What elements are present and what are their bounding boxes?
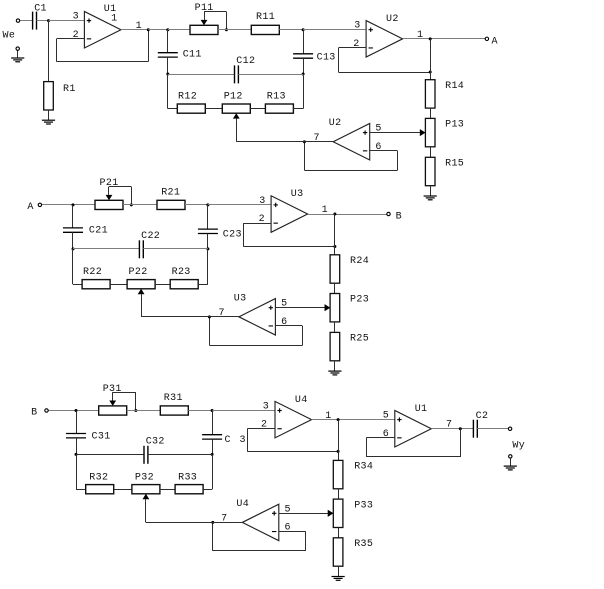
terminal B input	[45, 409, 48, 412]
svg-text:6: 6	[383, 429, 389, 440]
wire down to C31	[76, 411, 78, 434]
pin 1 label U1	[136, 21, 142, 32]
wire U4 pin6 feedback	[213, 522, 306, 550]
label R13	[267, 92, 286, 103]
wire R21 to C23 node	[185, 204, 208, 206]
svg-text:R21: R21	[161, 187, 180, 198]
wire node to U1 pin3	[49, 20, 85, 22]
svg-text:1: 1	[111, 13, 117, 24]
pin 5 label U3	[281, 299, 287, 310]
wire down to C11	[167, 30, 169, 53]
label B input	[31, 407, 37, 418]
junction C21 node	[72, 203, 75, 206]
svg-text:3: 3	[73, 12, 79, 23]
wire P23 to R25	[334, 322, 336, 333]
junction output node B	[333, 213, 336, 216]
wire down to C21	[72, 205, 74, 228]
label P11	[195, 3, 214, 14]
svg-text:1: 1	[136, 21, 142, 32]
potentiometer P33	[328, 499, 343, 527]
pin 6 label U2	[375, 142, 381, 153]
pin 3 label U2	[354, 21, 360, 32]
svg-text:R11: R11	[256, 12, 275, 23]
wire node down to R1	[48, 21, 50, 82]
svg-text:R1: R1	[63, 84, 76, 95]
svg-text:7: 7	[219, 308, 225, 319]
resistor R32	[86, 485, 114, 494]
wire R11 to C13 node	[279, 29, 303, 31]
pin 6 label U3	[281, 317, 287, 328]
wire C-row left 2	[73, 248, 139, 250]
resistor R34	[333, 460, 343, 488]
label R15	[445, 159, 464, 170]
resistor R14	[425, 80, 435, 108]
label P13	[445, 120, 464, 131]
label P12	[224, 92, 243, 103]
svg-text:2: 2	[73, 30, 79, 41]
svg-text:P21: P21	[100, 178, 119, 189]
svg-text:C13: C13	[317, 52, 336, 63]
label U2	[386, 14, 399, 25]
junction C-row right 3	[211, 453, 214, 456]
wire U3 lower output to P22 wiper	[141, 296, 239, 317]
wire C33 to row	[212, 439, 214, 454]
wire down to C33	[212, 411, 214, 435]
svg-text:R12: R12	[178, 92, 197, 103]
label U2 lower	[329, 118, 342, 129]
wire C-row left 3	[76, 454, 144, 456]
wire R12 to P12	[205, 108, 222, 110]
label A input	[27, 202, 33, 213]
junction P31 wiper	[134, 409, 137, 412]
svg-text:3: 3	[259, 196, 265, 207]
ground under R1	[42, 110, 55, 124]
pin 2 label U1	[73, 30, 79, 41]
junction output node A	[429, 37, 432, 40]
wire R22 to P22	[110, 284, 127, 286]
wire left drop to R12	[168, 74, 178, 109]
label U4	[295, 395, 308, 406]
label R21	[161, 187, 180, 198]
ground under R35	[332, 566, 345, 580]
svg-text:U3: U3	[234, 293, 247, 304]
wire C2 to Wy	[477, 428, 508, 430]
wire to U2 pin3	[303, 29, 366, 31]
terminal ground output	[509, 455, 512, 458]
resistor R1	[44, 82, 54, 110]
svg-text:7: 7	[314, 133, 320, 144]
capacitor C1	[33, 12, 37, 30]
svg-text:P13: P13	[445, 120, 464, 131]
pin 3 label U1	[73, 12, 79, 23]
wire P11 wiper loop	[204, 12, 227, 30]
svg-text:C11: C11	[183, 50, 202, 61]
label R11	[256, 12, 275, 23]
wire U2 pin5 to P13 wiper	[370, 129, 426, 136]
resistor R24	[330, 255, 340, 283]
resistor R13	[265, 104, 293, 113]
junction U1 output	[147, 28, 150, 31]
op-amp U1	[84, 11, 121, 48]
svg-text:C12: C12	[236, 56, 255, 67]
label R24	[350, 256, 369, 267]
wire U4 output to U1 pin5	[312, 419, 395, 421]
svg-text:3: 3	[263, 402, 269, 413]
wire to P11	[168, 29, 190, 31]
svg-text:6: 6	[375, 142, 381, 153]
wire C31 to row	[76, 438, 78, 455]
wire A to node	[42, 204, 95, 206]
pin 7 label U1	[446, 420, 452, 431]
op-amp U3	[271, 196, 308, 233]
wire P22 to R23	[155, 284, 170, 286]
pin 5 label U4	[285, 504, 291, 515]
junction C-row right	[302, 73, 305, 76]
label U3 lower	[234, 293, 247, 304]
svg-text:C31: C31	[92, 431, 111, 442]
svg-text:C1: C1	[34, 4, 47, 15]
svg-text:R23: R23	[172, 267, 191, 278]
label A	[492, 36, 498, 47]
junction U3 feedback	[333, 245, 336, 248]
label B	[396, 211, 402, 222]
wire C-row left	[168, 74, 235, 76]
wire U3 pin6 feedback	[209, 317, 302, 346]
svg-text:R35: R35	[354, 539, 373, 550]
junction C-row left 2	[72, 247, 75, 250]
wire to U3 pin3	[208, 204, 271, 206]
wire U4 node down to R34	[338, 420, 340, 461]
op-amp U1 second half	[395, 410, 432, 447]
capacitor C32	[144, 446, 148, 464]
svg-text:U2: U2	[386, 14, 399, 25]
svg-text:5: 5	[281, 299, 287, 310]
capacitor C12	[235, 65, 239, 83]
wire main to C11 node	[148, 29, 168, 31]
resistor R15	[425, 157, 435, 185]
wire P33 to R35	[338, 528, 340, 538]
pin 1 label U2	[417, 30, 423, 41]
label P32	[135, 473, 154, 484]
wire R23 to right drop	[198, 249, 208, 285]
svg-text:B: B	[31, 407, 37, 418]
label C21	[89, 226, 108, 237]
label U3	[291, 189, 304, 200]
wire C-row right 3	[148, 454, 212, 456]
pin 1 label U3	[322, 205, 328, 216]
terminal Wy	[508, 427, 511, 430]
label R25	[350, 334, 369, 345]
label U1	[104, 4, 117, 15]
resistor R35	[333, 538, 343, 566]
terminal A	[485, 37, 488, 40]
label P31	[103, 384, 122, 395]
wire U2 output to A	[403, 38, 486, 40]
resistor R11	[251, 25, 279, 34]
pin 2 label U4	[261, 420, 267, 431]
svg-text:A: A	[27, 202, 33, 213]
capacitor C22	[139, 240, 143, 258]
svg-text:R34: R34	[354, 462, 373, 473]
potentiometer P32	[132, 485, 160, 502]
wire P31 to R31	[127, 410, 161, 412]
label R32	[89, 473, 108, 484]
wire U4 pin5 to P33 wiper	[279, 510, 334, 517]
potentiometer P12	[222, 104, 250, 121]
junction U4 output node	[337, 418, 340, 421]
capacitor C33	[202, 435, 222, 439]
label P23	[350, 295, 369, 306]
junction U4 feedback	[337, 450, 340, 453]
junction C31 node	[75, 409, 78, 412]
svg-text:3: 3	[240, 435, 246, 446]
wire R13 to right drop	[293, 74, 303, 109]
svg-text:Wy: Wy	[512, 440, 525, 451]
wire input We	[20, 20, 33, 22]
svg-text:C2: C2	[476, 411, 489, 422]
op-amp U2 second half	[333, 123, 370, 160]
label P33	[354, 500, 373, 511]
wire R14 to P13	[430, 108, 432, 118]
junction U2 lower output	[303, 140, 306, 143]
pin 5 label U2	[375, 124, 381, 135]
wire U4 lower output to P32 wiper	[146, 501, 243, 522]
label U4 lower	[236, 499, 249, 510]
wire P21 to R21	[123, 204, 157, 206]
label R33	[178, 473, 197, 484]
label U1 output buffer	[415, 404, 428, 415]
capacitor C23	[198, 229, 218, 233]
svg-text:C22: C22	[141, 231, 160, 242]
label R22	[83, 267, 102, 278]
svg-text:1: 1	[325, 411, 331, 422]
wire R24 to P23	[334, 283, 336, 293]
ground under R25	[328, 361, 341, 375]
wire U3 output to B	[308, 214, 387, 216]
wire down to C13	[303, 30, 305, 54]
pin 2 label U3	[259, 214, 265, 225]
potentiometer P11	[190, 18, 218, 35]
ground under R15	[424, 186, 437, 200]
svg-text:6: 6	[281, 317, 287, 328]
op-amp U4 second half	[242, 504, 278, 541]
potentiometer P23	[325, 294, 340, 322]
svg-text:P23: P23	[350, 295, 369, 306]
wire C11 to row	[167, 57, 169, 74]
svg-text:3: 3	[354, 21, 360, 32]
wire P32 to R33	[160, 489, 175, 491]
label C1	[34, 4, 47, 15]
svg-text:We: We	[3, 31, 16, 42]
svg-text:B: B	[396, 211, 402, 222]
junction U2 feedback	[429, 71, 432, 74]
label R34	[354, 462, 373, 473]
label P22	[129, 267, 148, 278]
svg-text:U2: U2	[329, 118, 342, 129]
resistor R22	[82, 280, 110, 289]
svg-text:A: A	[492, 36, 498, 47]
svg-text:R22: R22	[83, 267, 102, 278]
svg-text:R13: R13	[267, 92, 286, 103]
wire U2 pin6 feedback	[304, 142, 397, 171]
junction C-row left 3	[75, 453, 78, 456]
wire A node down to R14	[430, 39, 432, 80]
label C11	[183, 50, 202, 61]
resistor R31	[160, 406, 188, 415]
ground at input	[11, 50, 24, 62]
wire left drop to R22	[73, 249, 83, 285]
pin 7 label U2	[314, 133, 320, 144]
svg-text:1: 1	[417, 30, 423, 41]
wire B node down to R24	[334, 214, 336, 255]
wire C1 to node	[37, 20, 49, 22]
pin 7 label U4	[221, 514, 227, 525]
op-amp U2	[366, 21, 403, 58]
wire C23 to row	[207, 234, 209, 249]
wire P13 to R15	[430, 147, 432, 158]
junction U1 output	[459, 427, 462, 430]
resistor R33	[175, 485, 203, 494]
label P21	[100, 178, 119, 189]
resistor R12	[177, 104, 205, 113]
svg-text:U3: U3	[291, 189, 304, 200]
wire U3 feedback	[243, 223, 335, 246]
wire U2 feedback	[338, 48, 430, 73]
wire C13 to row	[303, 58, 305, 74]
svg-text:P32: P32	[135, 473, 154, 484]
capacitor C2	[473, 420, 477, 438]
wire P12 to R13	[250, 108, 265, 110]
pin 1 label U4	[325, 411, 331, 422]
capacitor C13	[293, 54, 313, 58]
svg-text:U1: U1	[415, 404, 428, 415]
label R12	[178, 92, 197, 103]
wire U4 feedback	[247, 429, 338, 452]
junction C-row left	[166, 73, 169, 76]
svg-text:R31: R31	[164, 393, 183, 404]
label C23	[223, 230, 242, 241]
svg-text:C: C	[225, 435, 231, 446]
op-amp U3 second half	[239, 299, 276, 336]
junction P11 wiper	[225, 28, 228, 31]
svg-text:R15: R15	[445, 159, 464, 170]
junction U3 lower output	[208, 315, 211, 318]
label C12	[236, 56, 255, 67]
label We	[3, 31, 16, 42]
wire C-row right	[238, 74, 303, 76]
capacitor C31	[66, 434, 86, 438]
wire C-row right 2	[143, 248, 208, 250]
wire P21 wiper loop	[109, 187, 132, 205]
svg-text:U4: U4	[236, 499, 249, 510]
capacitor C21	[63, 228, 83, 232]
svg-text:R33: R33	[178, 473, 197, 484]
wire B to node	[48, 410, 98, 412]
wire C21 to row	[72, 232, 74, 249]
terminal We	[16, 19, 19, 22]
svg-text:P12: P12	[224, 92, 243, 103]
svg-text:U4: U4	[295, 395, 308, 406]
svg-text:2: 2	[353, 39, 359, 50]
terminal ground input	[16, 47, 19, 50]
svg-text:P33: P33	[354, 500, 373, 511]
potentiometer P13	[420, 118, 435, 146]
label R31	[164, 393, 183, 404]
svg-text:C23: C23	[223, 230, 242, 241]
terminal A input	[38, 203, 41, 206]
label R23	[172, 267, 191, 278]
pin 2 label U2	[353, 39, 359, 50]
svg-text:P22: P22	[129, 267, 148, 278]
label C22	[141, 231, 160, 242]
wire P31 wiper loop	[113, 392, 136, 410]
wire R34 to P33	[338, 489, 340, 499]
wire P11 to R11	[218, 29, 251, 31]
junction C23 node	[206, 203, 209, 206]
junction P21 wiper	[130, 203, 133, 206]
potentiometer P31	[99, 399, 127, 416]
wire U3 pin5 to P23 wiper	[275, 304, 330, 311]
pin 3 label U4	[263, 402, 269, 413]
pin 7 label U3	[219, 308, 225, 319]
pin 3 label U3	[259, 196, 265, 207]
svg-text:R24: R24	[350, 256, 369, 267]
wire U1 pin2 feedback	[57, 30, 149, 62]
potentiometer P22	[127, 280, 155, 297]
pin 6 label U4	[285, 523, 291, 534]
svg-text:R14: R14	[445, 81, 464, 92]
pin 5 label U1	[383, 411, 389, 422]
junction U4 lower output	[211, 521, 214, 524]
svg-text:C21: C21	[89, 226, 108, 237]
wire R32 to P32	[114, 489, 132, 491]
label R14	[445, 81, 464, 92]
label R35	[354, 539, 373, 550]
junction C13 node	[302, 28, 305, 31]
wire down to C23	[207, 205, 209, 229]
wire U2 lower output to P12 wiper	[236, 121, 333, 142]
terminal B	[387, 212, 390, 215]
gate number 1 of U1	[111, 13, 117, 24]
wire R31 to C33 node	[188, 410, 212, 412]
junction C11 node	[166, 28, 169, 31]
resistor R23	[170, 280, 198, 289]
svg-text:R32: R32	[89, 473, 108, 484]
capacitor C11	[158, 53, 178, 57]
svg-text:2: 2	[261, 420, 267, 431]
ground at output	[504, 458, 517, 470]
junction C1/R1 node	[47, 19, 50, 22]
svg-text:C32: C32	[146, 437, 165, 448]
resistor R25	[330, 332, 340, 360]
pin 6 label U1	[383, 429, 389, 440]
svg-text:R25: R25	[350, 334, 369, 345]
label C32	[146, 437, 165, 448]
op-amp U4	[275, 401, 312, 438]
label C31	[92, 431, 111, 442]
svg-text:5: 5	[383, 411, 389, 422]
label R1	[63, 84, 76, 95]
potentiometer P21	[95, 193, 123, 210]
label Wy	[512, 440, 525, 451]
label C33 part C	[225, 435, 231, 446]
junction C33 node	[211, 409, 214, 412]
wire R33 to right drop	[203, 454, 212, 489]
junction C-row right 2	[206, 247, 209, 250]
label C2	[476, 411, 489, 422]
wire to U4 pin3	[212, 410, 275, 412]
wire U1 output	[431, 428, 473, 430]
